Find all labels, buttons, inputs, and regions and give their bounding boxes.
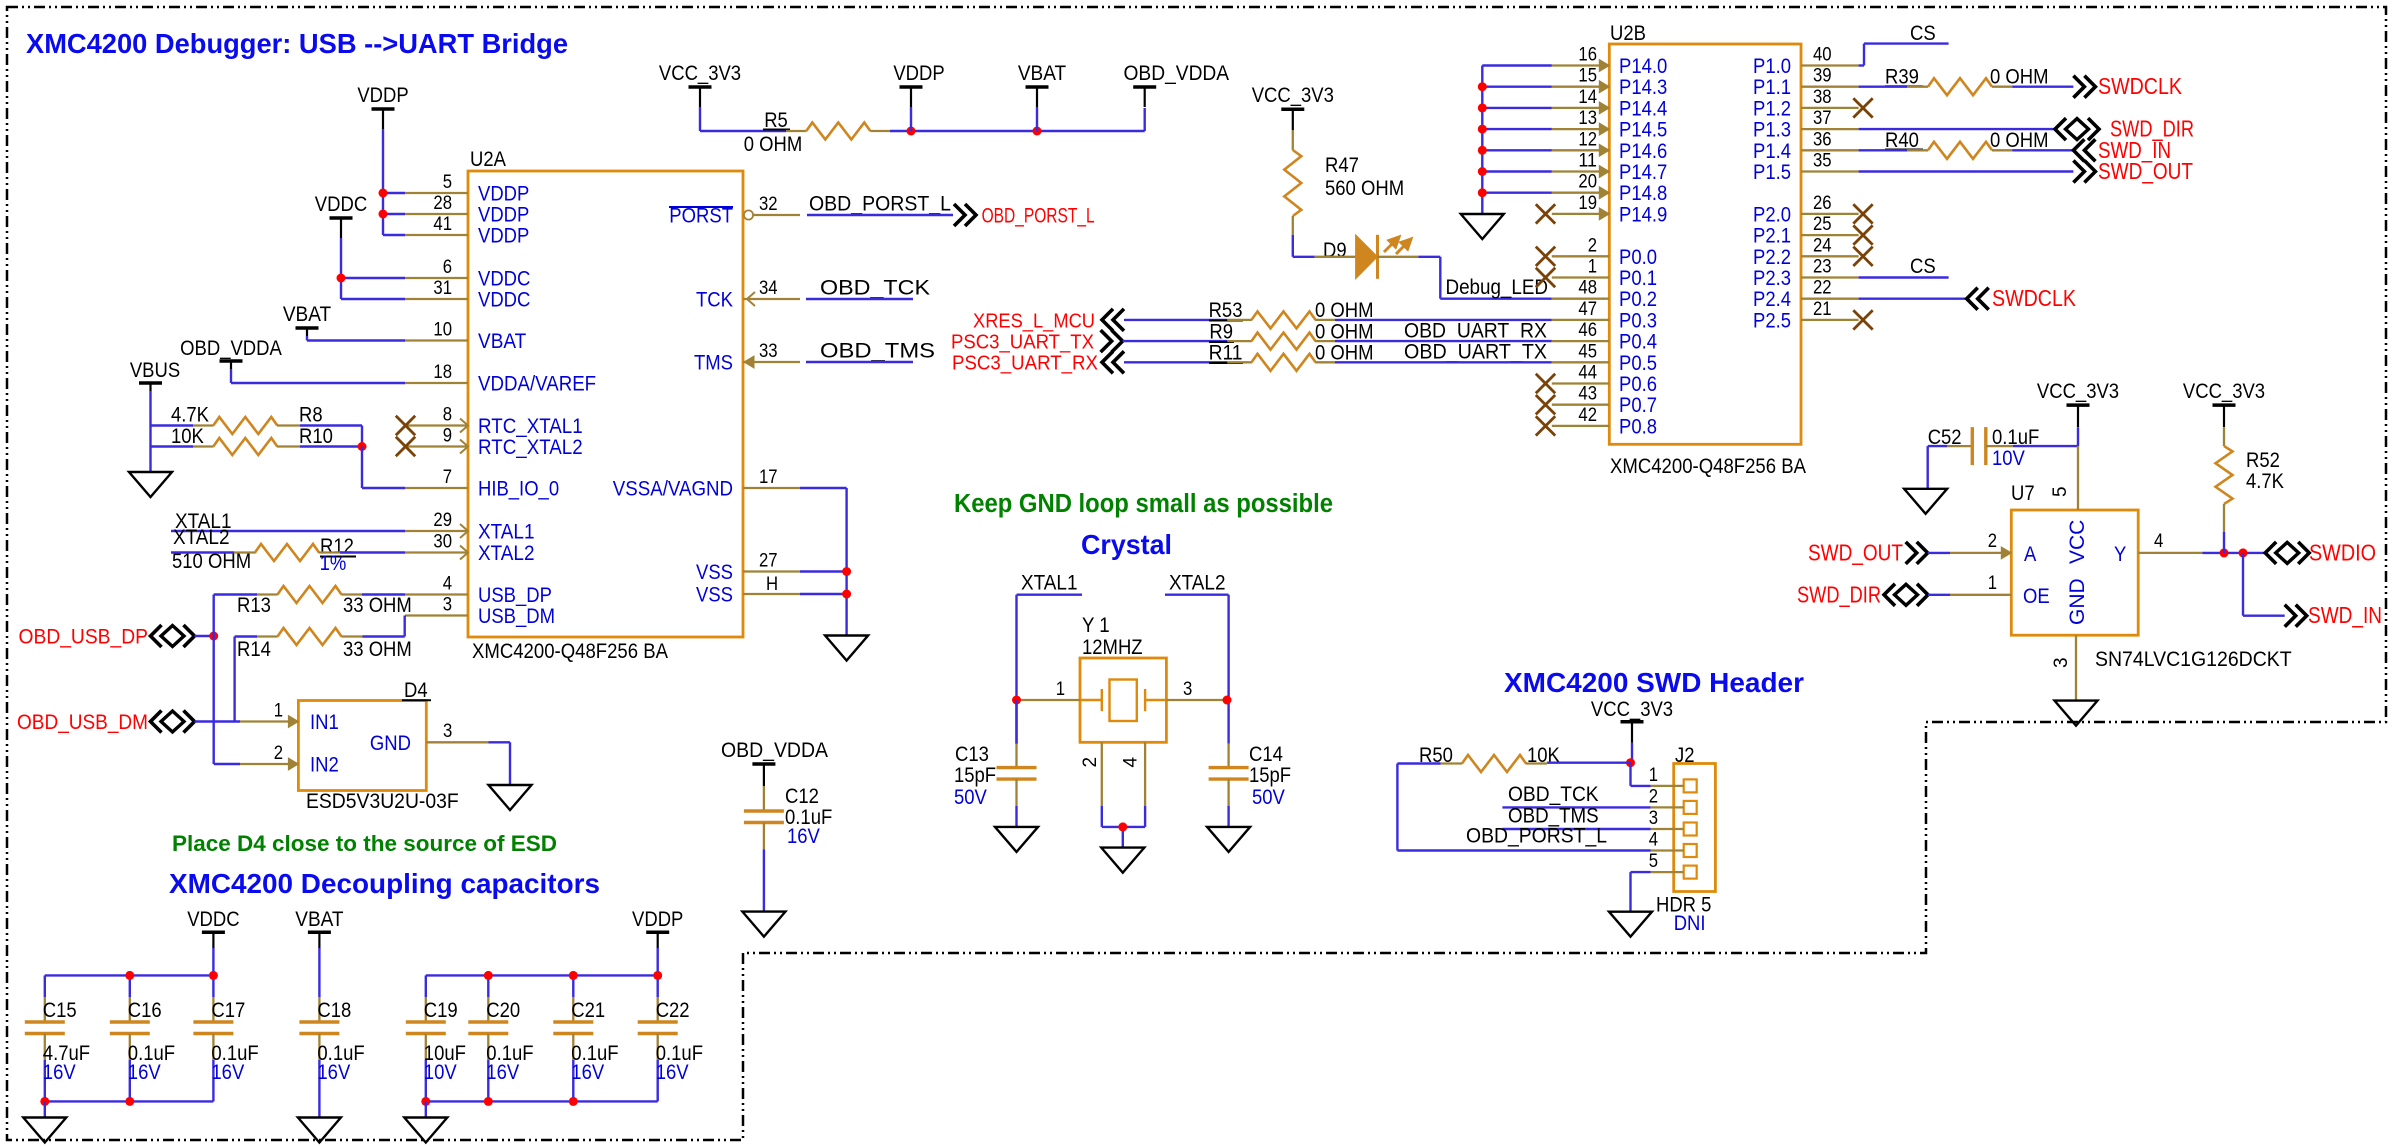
svg-text:31: 31	[433, 278, 452, 299]
svg-text:36: 36	[1813, 129, 1832, 150]
svg-text:3: 3	[443, 721, 452, 742]
ground J2	[1609, 912, 1652, 937]
svg-text:R13: R13	[237, 594, 271, 617]
svg-text:IN2: IN2	[310, 754, 339, 777]
svg-text:OE: OE	[2023, 585, 2050, 608]
svg-text:47: 47	[1578, 299, 1597, 320]
svg-text:C12: C12	[785, 785, 819, 808]
wire VCC_3V3 to R5	[699, 107, 701, 131]
svg-text:50V: 50V	[954, 786, 987, 809]
svg-text:27: 27	[759, 551, 778, 572]
wire R13 to pin 4	[362, 593, 405, 595]
svg-text:OBD_USB_DP: OBD_USB_DP	[19, 625, 149, 649]
wire OBD_TCK to J2 pin2	[1502, 806, 1650, 808]
svg-text:4: 4	[1649, 830, 1659, 851]
svg-text:P0.0: P0.0	[1619, 246, 1657, 269]
svg-text:41: 41	[433, 214, 452, 235]
U2A pin 33 TMS input arrow	[744, 356, 754, 368]
svg-text:P0.3: P0.3	[1619, 309, 1657, 332]
D4 pin 1 IN1	[240, 720, 298, 722]
junction bottom rail C15	[40, 1097, 49, 1106]
svg-text:45: 45	[1578, 341, 1597, 362]
junction VBAT rail	[1033, 127, 1042, 136]
svg-text:P1.2: P1.2	[1753, 97, 1791, 120]
svg-text:VDDP: VDDP	[357, 84, 408, 107]
svg-text:XMC4200 SWD Header: XMC4200 SWD Header	[1504, 667, 1804, 698]
svg-text:5: 5	[1649, 851, 1658, 872]
svg-text:RTC_XTAL2: RTC_XTAL2	[478, 436, 583, 459]
svg-text:GND: GND	[370, 732, 411, 755]
wire J2 pin1	[1629, 763, 1631, 786]
svg-text:D9: D9	[1323, 239, 1347, 262]
svg-text:USB_DP: USB_DP	[478, 584, 552, 607]
svg-text:R52: R52	[2246, 449, 2280, 472]
svg-text:SWDIO: SWDIO	[2309, 539, 2376, 565]
svg-text:VSS: VSS	[696, 584, 733, 607]
wire R50 to VCC junction	[1547, 762, 1630, 764]
svg-text:XMC4200-Q48F256 BA: XMC4200-Q48F256 BA	[472, 640, 668, 663]
junction VSS 27	[842, 567, 851, 576]
svg-text:PSC3_UART_TX: PSC3_UART_TX	[951, 332, 1094, 354]
svg-text:VDDC: VDDC	[315, 193, 367, 216]
svg-text:R53: R53	[1209, 299, 1243, 322]
wire VDDC cap bank top rail	[45, 974, 214, 976]
svg-text:10: 10	[433, 320, 452, 341]
svg-text:SWDCLK: SWDCLK	[2098, 73, 2182, 99]
U7 pin 3 GND	[2075, 635, 2077, 700]
wire VDDP stem to rail	[657, 948, 659, 975]
svg-text:Debug_LED: Debug_LED	[1446, 276, 1549, 299]
wire VSSA/VAGND to ground rail	[800, 487, 847, 489]
svg-text:SWD_IN: SWD_IN	[2308, 602, 2382, 628]
svg-text:34: 34	[759, 278, 778, 299]
svg-text:OBD_PORST_L: OBD_PORST_L	[982, 204, 1095, 228]
wire P1.5 to SWD_OUT port	[1859, 170, 2074, 172]
junction top rail C22	[653, 971, 662, 980]
wire XTAL2 stub and down to crystal	[1165, 594, 1229, 596]
wire OBD_USB_DP vertical to IN2	[212, 595, 214, 765]
wire SWD_IN branch	[2242, 553, 2244, 616]
junction VDDP pin28	[379, 210, 388, 219]
svg-text:VCC: VCC	[2066, 520, 2089, 564]
svg-text:50V: 50V	[1252, 786, 1285, 809]
svg-text:U7: U7	[2011, 482, 2035, 505]
svg-text:P2.3: P2.3	[1753, 267, 1791, 290]
mcu U2B XMC4200-Q48F256 BA	[1609, 44, 1801, 444]
svg-text:Crystal: Crystal	[1081, 529, 1172, 560]
svg-text:VDDP: VDDP	[478, 225, 529, 248]
capacitor C22	[657, 975, 659, 997]
ground C18	[298, 1118, 341, 1143]
svg-text:VCC_3V3: VCC_3V3	[659, 62, 741, 85]
svg-text:16V: 16V	[486, 1061, 519, 1084]
svg-text:3: 3	[1649, 808, 1658, 829]
svg-text:TCK: TCK	[696, 289, 733, 312]
svg-text:0.1uF: 0.1uF	[1992, 426, 2039, 449]
svg-text:16V: 16V	[43, 1061, 76, 1084]
svg-text:29: 29	[433, 510, 452, 531]
junction bottom rail C16	[125, 1097, 134, 1106]
ground C52	[1904, 489, 1947, 514]
wire R10 to junction	[300, 445, 362, 447]
wire R52 to SWDIO net	[2223, 532, 2225, 553]
port SWD_DIR	[2055, 118, 2099, 140]
svg-text:35: 35	[1813, 151, 1832, 172]
svg-text:SWDCLK: SWDCLK	[1992, 285, 2076, 311]
svg-text:XTAL2: XTAL2	[478, 542, 535, 565]
svg-text:P0.6: P0.6	[1619, 373, 1657, 396]
svg-text:Y: Y	[2114, 543, 2126, 566]
U7 pin 2 A	[1950, 552, 2011, 554]
U2B left pins with names and numbers	[1536, 45, 1668, 439]
svg-text:18: 18	[433, 362, 452, 383]
svg-text:24: 24	[1813, 235, 1832, 256]
svg-text:5: 5	[443, 172, 452, 193]
junction bottom rail C20	[484, 1097, 493, 1106]
svg-text:20: 20	[1578, 172, 1597, 193]
svg-text:P1.5: P1.5	[1753, 161, 1791, 184]
svg-text:16: 16	[1578, 45, 1597, 66]
svg-text:1: 1	[1056, 679, 1065, 700]
wire R39 to SWDCLK port	[2012, 85, 2073, 87]
svg-text:P14.3: P14.3	[1619, 76, 1667, 99]
svg-text:16V: 16V	[128, 1061, 161, 1084]
wire VDDC stem to rail	[212, 948, 214, 975]
svg-text:48: 48	[1578, 278, 1597, 299]
svg-text:OBD_UART_TX: OBD_UART_TX	[1404, 341, 1547, 364]
svg-text:P1.0: P1.0	[1753, 55, 1791, 78]
junction VDDC pin6	[337, 274, 346, 283]
capacitor C52	[1947, 445, 1972, 447]
svg-text:XMC4200 Decoupling capacitors: XMC4200 Decoupling capacitors	[169, 868, 600, 899]
svg-text:21: 21	[1813, 299, 1832, 320]
svg-text:15pF: 15pF	[954, 764, 996, 787]
svg-text:J2: J2	[1675, 744, 1695, 767]
no-connect X pin 9	[396, 437, 415, 456]
svg-text:D4: D4	[404, 679, 428, 702]
no-connect X pin 8	[396, 416, 415, 435]
svg-text:C18: C18	[317, 999, 351, 1022]
ground U7	[2055, 701, 2098, 726]
wire VCC to U7 pin5 and C52	[2077, 427, 2079, 446]
svg-text:XRES_L_MCU: XRES_L_MCU	[973, 311, 1095, 333]
U7 pin 5 VCC	[2077, 446, 2079, 510]
svg-text:11: 11	[1578, 151, 1597, 172]
svg-text:23: 23	[1813, 257, 1832, 278]
wire OBD_USB_DP port to junction	[195, 635, 214, 637]
svg-text:VBAT: VBAT	[295, 908, 343, 931]
svg-text:R8: R8	[299, 404, 323, 427]
svg-text:33 OHM: 33 OHM	[343, 594, 412, 617]
svg-text:16V: 16V	[787, 825, 820, 848]
svg-text:C14: C14	[1249, 743, 1283, 766]
svg-text:R14: R14	[237, 638, 271, 661]
mcu U2A XMC4200-Q48F256 BA	[468, 171, 743, 637]
svg-text:2: 2	[1988, 531, 1997, 552]
svg-text:2: 2	[274, 743, 283, 764]
junction OBD_USB_DP	[209, 632, 218, 641]
esd diode D4 ESD5V3U2U-03F	[298, 701, 426, 791]
wire XRES to R53	[1124, 319, 1227, 321]
svg-text:R39: R39	[1885, 66, 1919, 89]
port SWDCLK at P2.4	[1967, 288, 1989, 310]
ground Y1	[1101, 848, 1144, 873]
svg-text:5: 5	[2050, 486, 2071, 497]
port SWD_OUT at U2B	[2073, 161, 2095, 183]
svg-text:1: 1	[1988, 573, 1997, 594]
svg-text:OBD_VDDA: OBD_VDDA	[721, 739, 828, 762]
svg-text:P1.3: P1.3	[1753, 119, 1791, 142]
wire R14 down to USB_DM net	[233, 637, 235, 722]
wire R14 to pin 3	[363, 635, 405, 637]
svg-text:40: 40	[1813, 45, 1832, 66]
capacitor C19	[425, 975, 427, 997]
svg-text:R10: R10	[299, 425, 333, 448]
svg-text:VDDP: VDDP	[893, 62, 944, 85]
junction VSS H	[842, 590, 851, 599]
Y1 pin 3	[1166, 699, 1227, 701]
svg-text:OBD_PORST_L: OBD_PORST_L	[1466, 825, 1607, 848]
wire R53 to U2B pin 47	[1335, 319, 1552, 321]
svg-text:Place D4 close to the source o: Place D4 close to the source of ESD	[172, 831, 557, 856]
svg-text:VDDP: VDDP	[478, 204, 529, 227]
wire VDDP stem	[910, 107, 912, 131]
ground VDDP cap bank	[404, 1118, 447, 1143]
svg-text:USB_DM: USB_DM	[478, 605, 555, 628]
svg-text:9: 9	[443, 426, 452, 447]
port SWDCLK	[2073, 76, 2095, 98]
svg-text:XTAL2: XTAL2	[173, 526, 230, 549]
svg-text:SWD_OUT: SWD_OUT	[2098, 158, 2193, 184]
wire VSS pins to ground rail	[800, 570, 847, 572]
wire to ground VDDC bank	[44, 1101, 46, 1117]
svg-text:10V: 10V	[1992, 447, 2025, 470]
wire Y1 ground loop	[1101, 806, 1103, 827]
svg-text:TMS: TMS	[694, 352, 733, 375]
svg-text:P14.4: P14.4	[1619, 97, 1668, 120]
wire VDDC cap bank bottom rail	[45, 1100, 214, 1102]
svg-text:XMC4200-Q48F256 BA: XMC4200-Q48F256 BA	[1610, 455, 1806, 478]
wire TMS stub	[806, 361, 913, 363]
junction top rail C16	[125, 971, 134, 980]
wire VBUS down to R8 R10	[149, 391, 151, 472]
port SWD_IN at U2B	[2073, 139, 2095, 161]
wire VBAT to pin 10	[306, 336, 308, 341]
junction XTAL1 at Y1 pin1	[1012, 696, 1021, 705]
capacitor C13	[1015, 700, 1017, 744]
svg-text:33: 33	[759, 341, 778, 362]
ground C12	[742, 912, 785, 937]
wire R12 to pin 30	[340, 551, 405, 553]
ground below VBUS divider	[129, 472, 172, 497]
svg-text:Keep GND loop small as possibl: Keep GND loop small as possible	[954, 490, 1333, 518]
capacitor C18	[318, 948, 320, 997]
svg-text:P14.6: P14.6	[1619, 140, 1667, 163]
svg-text:VDDC: VDDC	[478, 268, 530, 291]
junction R50 VCC J2	[1626, 758, 1635, 767]
svg-text:P14.9: P14.9	[1619, 203, 1667, 226]
svg-text:33 OHM: 33 OHM	[343, 638, 412, 661]
svg-text:VBAT: VBAT	[1018, 62, 1066, 85]
svg-text:PSC3_UART_RX: PSC3_UART_RX	[952, 353, 1098, 375]
svg-text:0 OHM: 0 OHM	[744, 133, 803, 156]
svg-text:3: 3	[1183, 679, 1192, 700]
svg-text:6: 6	[443, 257, 452, 278]
svg-text:OBD_TCK: OBD_TCK	[1508, 783, 1599, 806]
svg-text:28: 28	[433, 193, 452, 214]
svg-text:16V: 16V	[211, 1061, 244, 1084]
svg-text:P2.5: P2.5	[1753, 309, 1791, 332]
svg-text:SWD_DIR: SWD_DIR	[1797, 581, 1881, 607]
svg-text:15pF: 15pF	[1249, 764, 1291, 787]
svg-text:32: 32	[759, 194, 778, 215]
svg-text:4.7K: 4.7K	[171, 404, 209, 427]
svg-text:44: 44	[1578, 363, 1597, 384]
wire VCC to J2 pin1	[1631, 743, 1633, 763]
svg-text:30: 30	[433, 532, 452, 553]
svg-text:VBAT: VBAT	[283, 303, 331, 326]
svg-text:SWD_OUT: SWD_OUT	[1808, 539, 1903, 565]
D4 pin 3 GND	[426, 741, 488, 743]
ground P14 rail	[1461, 214, 1504, 239]
svg-text:19: 19	[1578, 193, 1597, 214]
svg-text:39: 39	[1813, 66, 1832, 87]
ground C13	[995, 827, 1038, 852]
wire to ground VDDP bank	[425, 1101, 427, 1117]
wire PSC3_UART_RX to R11	[1124, 361, 1227, 363]
svg-text:P2.0: P2.0	[1753, 203, 1791, 226]
svg-text:HIB_IO_0: HIB_IO_0	[478, 478, 559, 501]
svg-text:A: A	[2024, 543, 2036, 566]
wire Y to SWDIO port	[2202, 552, 2265, 554]
svg-text:P0.7: P0.7	[1619, 394, 1657, 417]
wire R8 to junction	[300, 424, 362, 426]
svg-text:0 OHM: 0 OHM	[1315, 342, 1374, 365]
ground C14	[1207, 827, 1250, 852]
svg-text:560 OHM: 560 OHM	[1325, 177, 1404, 200]
wire SWD_DIR port to U7	[1928, 594, 1950, 596]
svg-text:VSSA/VAGND: VSSA/VAGND	[613, 478, 733, 501]
svg-text:P2.4: P2.4	[1753, 288, 1791, 311]
svg-text:OBD_VDDA: OBD_VDDA	[1124, 62, 1230, 85]
svg-text:P0.4: P0.4	[1619, 331, 1657, 354]
svg-text:4.7K: 4.7K	[2246, 470, 2284, 493]
wire VDDP cap bank top rail	[426, 974, 658, 976]
svg-text:C21: C21	[571, 999, 605, 1022]
svg-text:OBD_TCK: OBD_TCK	[820, 277, 930, 300]
svg-text:OBD_PORST_L: OBD_PORST_L	[809, 193, 951, 216]
svg-text:13: 13	[1578, 108, 1597, 129]
wire OBD_VDDA to pin 18	[230, 369, 232, 383]
svg-text:2: 2	[1080, 757, 1101, 768]
capacitor C21	[572, 975, 574, 997]
svg-text:IN1: IN1	[310, 711, 339, 734]
svg-text:H: H	[766, 574, 778, 595]
svg-text:P0.5: P0.5	[1619, 352, 1657, 375]
wire J2 pin5 to ground	[1631, 871, 1651, 873]
svg-text:VSS: VSS	[696, 561, 733, 584]
svg-text:15: 15	[1578, 66, 1597, 87]
svg-text:46: 46	[1578, 320, 1597, 341]
port OBD_PORST_L	[954, 204, 976, 226]
svg-text:C16: C16	[128, 999, 162, 1022]
svg-text:R47: R47	[1325, 154, 1359, 177]
wire CS from P2.3	[1859, 276, 1949, 278]
svg-text:26: 26	[1813, 193, 1832, 214]
svg-text:OBD_UART_RX: OBD_UART_RX	[1404, 320, 1547, 343]
svg-text:C17: C17	[211, 999, 245, 1022]
ground VDDC cap bank	[23, 1118, 66, 1143]
capacitor C17	[212, 975, 214, 997]
svg-text:C15: C15	[43, 999, 77, 1022]
junction SWD_IN branch	[2239, 548, 2248, 557]
svg-text:VDDC: VDDC	[187, 908, 239, 931]
svg-text:C13: C13	[955, 743, 989, 766]
wire junction to HIB_IO_0 pin 7	[361, 447, 363, 489]
wire VBAT stem	[1036, 107, 1038, 131]
wire R47 to D9	[1292, 235, 1294, 257]
U2A right pins with names and numbers	[613, 194, 800, 607]
wire VDDP rail to pins 5 28 41	[382, 129, 384, 235]
svg-text:P14.5: P14.5	[1619, 119, 1667, 142]
wire XTAL2 left segment	[171, 551, 234, 553]
capacitor C20	[487, 975, 489, 997]
svg-text:C22: C22	[656, 999, 690, 1022]
wire PORST to port	[807, 214, 953, 216]
junction R8 R10 node	[358, 442, 367, 451]
junction VDDP rail	[907, 127, 916, 136]
svg-text:R11: R11	[1209, 342, 1243, 365]
wire C52 to ground	[1928, 445, 1948, 447]
junction Y1 gnd	[1118, 822, 1127, 831]
svg-text:P14.0: P14.0	[1619, 55, 1667, 78]
buffer U7 SN74LVC1G126DCKT	[2011, 510, 2138, 635]
svg-text:25: 25	[1813, 214, 1832, 235]
svg-text:VCC_3V3: VCC_3V3	[2037, 380, 2119, 403]
svg-text:P0.8: P0.8	[1619, 415, 1657, 438]
U2B right pins with names and numbers	[1753, 45, 1873, 333]
wire CS from P1.0	[1859, 64, 1864, 66]
svg-text:VBAT: VBAT	[478, 330, 526, 353]
svg-text:OBD_VDDA: OBD_VDDA	[180, 337, 282, 360]
svg-text:10V: 10V	[424, 1061, 457, 1084]
svg-text:U2A: U2A	[470, 148, 506, 171]
wire VDDC rail to pins 6 31	[340, 238, 342, 299]
svg-text:VDDA/VAREF: VDDA/VAREF	[478, 373, 596, 396]
junction top rail C20	[484, 971, 493, 980]
svg-text:P14.8: P14.8	[1619, 182, 1667, 205]
svg-text:22: 22	[1813, 278, 1832, 299]
svg-text:U2B: U2B	[1610, 22, 1646, 45]
wire PSC3_UART_TX to R9	[1123, 340, 1228, 342]
svg-text:DNI: DNI	[1674, 912, 1706, 935]
svg-text:4: 4	[1121, 757, 1142, 768]
svg-text:16V: 16V	[656, 1061, 689, 1084]
svg-text:2: 2	[1649, 786, 1658, 807]
svg-text:7: 7	[443, 467, 452, 488]
svg-text:VDDP: VDDP	[632, 908, 683, 931]
wire OBD_TMS to J2 pin3	[1502, 828, 1650, 830]
svg-text:0 OHM: 0 OHM	[1990, 129, 2049, 152]
svg-text:16V: 16V	[317, 1061, 350, 1084]
Y1 pin 1	[1017, 699, 1081, 701]
svg-text:Y 1: Y 1	[1082, 614, 1110, 637]
wire XTAL1 to pin 29	[171, 530, 405, 532]
svg-text:17: 17	[759, 467, 778, 488]
svg-text:C20: C20	[486, 999, 520, 1022]
wire D4 GND to ground	[488, 741, 510, 743]
svg-text:0 OHM: 0 OHM	[1990, 66, 2049, 89]
